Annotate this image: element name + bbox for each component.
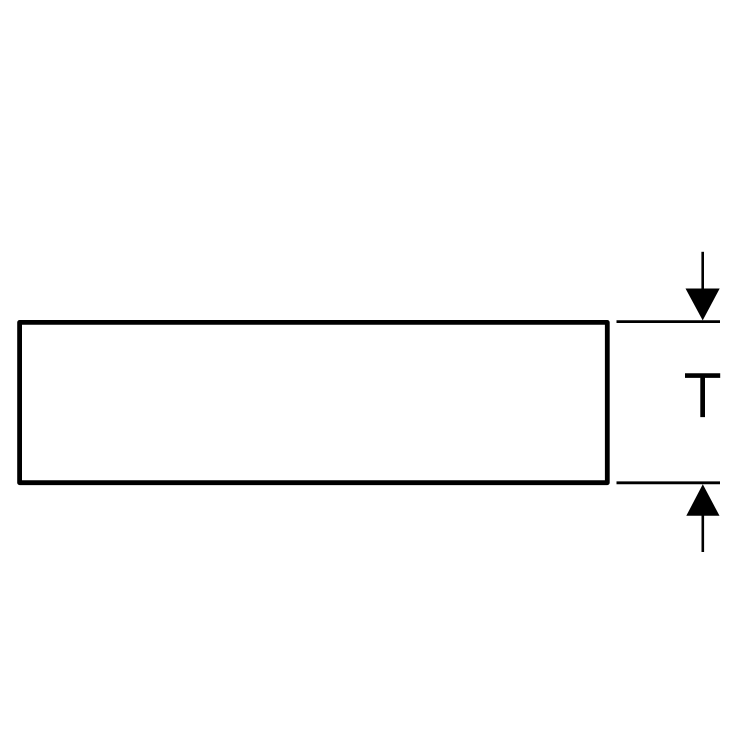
plate cross-section rectangle xyxy=(20,322,608,482)
bottom dimension arrowhead xyxy=(686,484,719,516)
top dimension arrow (pointing down) stem xyxy=(701,252,704,292)
top dimension arrowhead xyxy=(686,289,720,321)
top extension line xyxy=(617,320,721,323)
dimension label T xyxy=(685,373,720,417)
bottom dimension arrow (pointing up) stem xyxy=(701,514,704,552)
bottom extension line xyxy=(617,481,721,484)
